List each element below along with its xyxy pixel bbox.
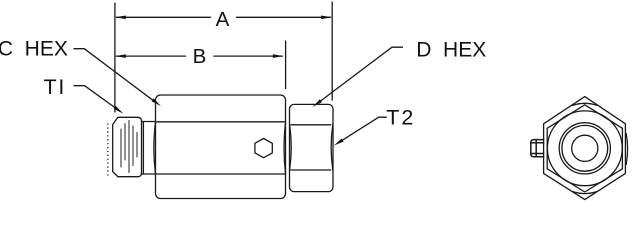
- svg-text:B: B: [193, 45, 207, 68]
- end view top vertex chamfer arc: [573, 103, 598, 105]
- end view chamfer circle: [547, 111, 622, 186]
- extension line right (A): [331, 2, 333, 100]
- nut D HEX outline: [290, 104, 334, 191]
- thread T1 crest dotted line: [107, 124, 109, 176]
- svg-text:T2: T2: [386, 105, 415, 129]
- body C HEX outline: [156, 95, 286, 199]
- end view inner hexagon: [547, 105, 622, 192]
- socket hexagon symbol: [255, 139, 272, 158]
- end view outer hexagon: [544, 97, 626, 200]
- body hex flat line bottom: [157, 173, 285, 175]
- thread T1 outer block: [113, 117, 142, 176]
- dimension B line: [116, 55, 185, 57]
- end view bottom vertex chamfer arc: [573, 192, 598, 194]
- end view side tab: [531, 140, 544, 157]
- leader T2: [342, 117, 386, 140]
- body hex flat line top: [157, 121, 285, 123]
- svg-text:A: A: [216, 8, 230, 31]
- dimension A arrowhead right: [321, 16, 332, 20]
- thread lines: [121, 121, 137, 173]
- leader C HEX: [74, 49, 153, 101]
- end view thread OD circle: [559, 123, 610, 174]
- dimension B arrowhead right: [273, 54, 284, 58]
- svg-text:D HEX: D HEX: [416, 38, 486, 61]
- dimension A arrowhead left: [115, 16, 126, 20]
- dimension B arrowhead left: [115, 54, 126, 58]
- nut right chamfer arc: [331, 125, 333, 170]
- neck left edge (thread runout): [142, 122, 144, 175]
- nut hex flat line top: [291, 124, 331, 126]
- svg-text:C HEX: C HEX: [0, 38, 68, 61]
- dimension A line: [116, 16, 210, 18]
- svg-text:TI: TI: [44, 75, 67, 99]
- leader T1: [74, 86, 115, 108]
- leader D HEX: [320, 47, 402, 101]
- nut hex flat line bottom: [291, 169, 331, 171]
- end view right edge chamfer bump: [626, 134, 627, 165]
- extension line right (B): [285, 41, 287, 89]
- end view bore circle: [572, 135, 598, 161]
- neck between thread and body: [142, 121, 156, 123]
- end view thread ID circle: [562, 125, 608, 171]
- body left end chamfer arc: [154, 122, 156, 174]
- body right end chamfer arc: [284, 122, 286, 174]
- extension line left (A/B datum): [114, 3, 116, 112]
- nut left chamfer arc: [290, 125, 292, 170]
